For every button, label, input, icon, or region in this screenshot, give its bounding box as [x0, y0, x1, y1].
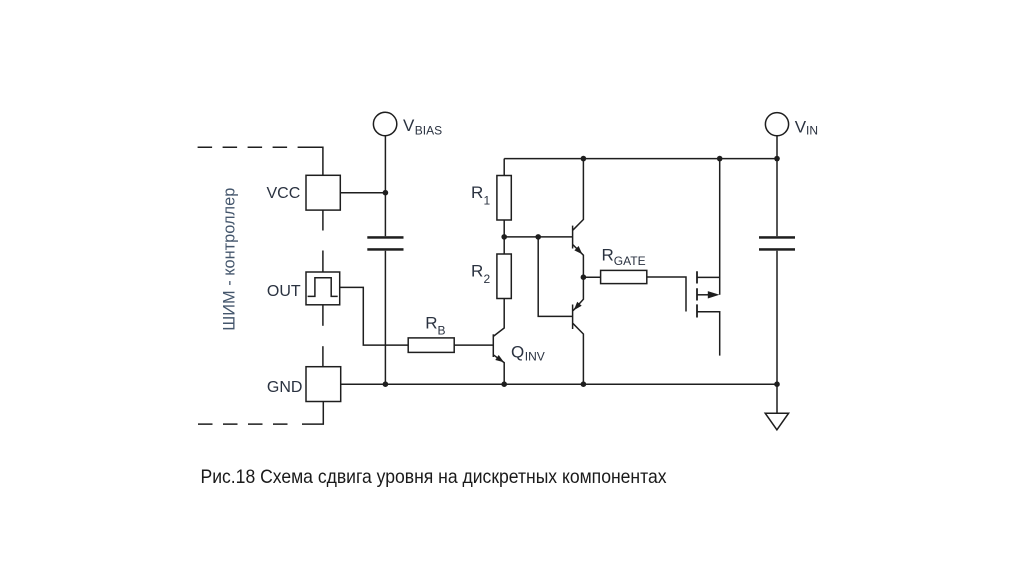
svg-text:R: R: [471, 183, 483, 202]
svg-text:IN: IN: [806, 124, 818, 138]
svg-text:R: R: [425, 314, 437, 333]
svg-text:GATE: GATE: [614, 254, 646, 268]
svg-text:VCC: VCC: [267, 185, 301, 202]
svg-text:ШИМ - контроллер: ШИМ - контроллер: [220, 188, 239, 331]
svg-text:BIAS: BIAS: [415, 124, 442, 138]
svg-text:INV: INV: [525, 350, 545, 364]
svg-text:Рис.18 Схема сдвига уровня на: Рис.18 Схема сдвига уровня на дискретных…: [201, 467, 667, 488]
svg-text:V: V: [403, 116, 415, 135]
svg-text:Q: Q: [511, 342, 524, 361]
svg-text:R: R: [602, 246, 614, 265]
svg-text:1: 1: [484, 193, 491, 207]
svg-text:B: B: [438, 323, 446, 337]
svg-text:GND: GND: [267, 379, 303, 396]
svg-text:V: V: [795, 118, 807, 137]
svg-text:R: R: [471, 262, 483, 281]
svg-text:OUT: OUT: [267, 283, 301, 300]
svg-text:2: 2: [484, 272, 491, 286]
